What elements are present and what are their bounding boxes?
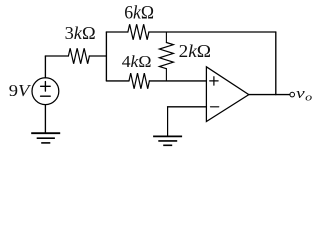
resistor R 4k zigzag: [129, 73, 149, 89]
wire minus input: [168, 106, 207, 108]
ground under source: bar 2: [37, 137, 55, 139]
feedback vertical wire: [275, 32, 277, 95]
resistor R 6k zigzag: [128, 24, 149, 40]
wire R 3k to node: [89, 55, 106, 57]
voltage source V1 circle: [32, 78, 59, 105]
resistor R 2k top stub: [165, 32, 167, 43]
svg-text:2kΩ: 2kΩ: [179, 42, 211, 63]
wire node to R 6k: [106, 31, 128, 33]
op-amp plus input symbol: [210, 77, 218, 85]
voltage source plus sign: [41, 82, 51, 92]
svg-text:9V: 9V: [9, 81, 32, 100]
resistor R 3k zigzag: [68, 48, 89, 64]
wire R 6k to feedback corner (passes 2k tee): [149, 31, 276, 33]
resistor R 2k zigzag: [159, 43, 173, 69]
svg-text:3kΩ: 3kΩ: [65, 23, 96, 43]
ground under source: bar 1: [31, 132, 60, 134]
op-amp minus input symbol: [211, 106, 219, 108]
wire node to R 4k: [106, 80, 129, 82]
ground under op-amp: bar 2: [158, 140, 177, 142]
ground under source: bar 3: [41, 142, 50, 144]
output terminal circle: [290, 92, 295, 97]
op-amp U1 triangle: [206, 67, 248, 122]
ground under op-amp: bar 1: [153, 135, 182, 137]
wire source bottom to ground: [44, 105, 46, 133]
svg-text:4kΩ: 4kΩ: [122, 52, 152, 71]
wire minus input down to ground: [167, 107, 169, 137]
node vertical wire: [105, 32, 107, 81]
resistor R 2k bottom stub: [165, 69, 167, 81]
wire R 4k to op-amp plus input: [149, 80, 206, 82]
wire corner to R 3k: [45, 55, 68, 57]
wire source top to corner: [44, 56, 46, 78]
voltage source minus sign: [41, 95, 51, 97]
ground under op-amp: bar 3: [163, 144, 172, 146]
output wire: [249, 94, 290, 96]
svg-text:6kΩ: 6kΩ: [124, 2, 154, 23]
